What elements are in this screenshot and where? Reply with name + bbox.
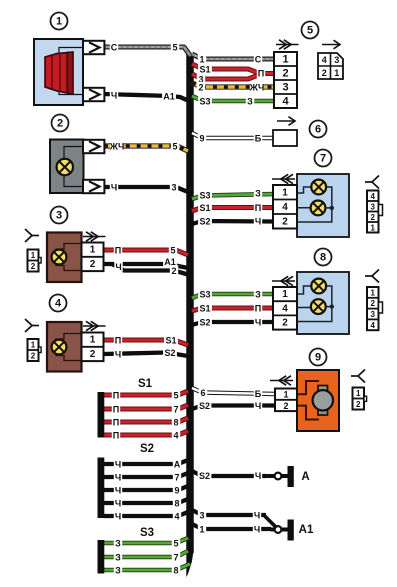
svg-text:1: 1 (283, 390, 288, 400)
svg-text:S2: S2 (199, 401, 210, 411)
svg-text:S3: S3 (199, 290, 210, 300)
svg-text:7: 7 (174, 473, 179, 483)
svg-text:9: 9 (199, 134, 204, 144)
svg-text:S2: S2 (199, 217, 210, 227)
svg-text:2: 2 (31, 352, 36, 361)
svg-text:1: 1 (371, 223, 376, 232)
svg-text:8: 8 (173, 566, 178, 576)
svg-text:8: 8 (320, 252, 326, 264)
svg-text:З: З (247, 97, 253, 107)
svg-text:S2: S2 (140, 443, 154, 455)
svg-text:7: 7 (173, 405, 178, 415)
svg-text:3: 3 (56, 210, 62, 222)
svg-text:4: 4 (282, 96, 289, 108)
svg-text:S3: S3 (199, 97, 210, 107)
svg-text:П: П (113, 418, 119, 428)
svg-text:2: 2 (371, 213, 376, 222)
svg-text:S3: S3 (199, 191, 210, 201)
svg-text:С: С (111, 43, 118, 53)
svg-text:П: П (255, 203, 261, 213)
svg-text:П: П (113, 405, 119, 415)
svg-text:З: З (115, 553, 121, 563)
svg-text:S2: S2 (199, 318, 210, 328)
svg-text:2: 2 (371, 299, 376, 308)
svg-text:Ч: Ч (255, 217, 261, 227)
svg-text:Ч: Ч (115, 473, 121, 483)
svg-text:Ч: Ч (255, 401, 261, 411)
svg-text:2: 2 (283, 401, 288, 411)
svg-text:5: 5 (173, 539, 178, 549)
svg-text:6: 6 (200, 388, 205, 398)
svg-text:3: 3 (334, 55, 339, 65)
svg-text:З: З (115, 539, 121, 549)
svg-text:Ч: Ч (115, 350, 121, 360)
svg-text:3: 3 (371, 202, 376, 211)
svg-text:2: 2 (31, 262, 36, 271)
svg-text:7: 7 (320, 153, 326, 165)
svg-text:П: П (115, 246, 121, 256)
svg-text:Ч: Ч (254, 511, 260, 521)
svg-text:1: 1 (90, 335, 96, 346)
svg-text:ЖЧ: ЖЧ (109, 142, 125, 152)
svg-text:S1: S1 (199, 65, 210, 75)
svg-text:2: 2 (171, 266, 176, 276)
svg-text:1: 1 (31, 341, 36, 350)
svg-text:2: 2 (57, 118, 63, 130)
svg-text:8: 8 (174, 499, 179, 509)
svg-text:6: 6 (315, 124, 321, 136)
svg-text:4: 4 (371, 321, 376, 330)
svg-text:1: 1 (282, 289, 288, 300)
svg-text:3: 3 (199, 511, 204, 521)
svg-text:5: 5 (307, 25, 313, 37)
svg-text:9: 9 (315, 352, 321, 364)
svg-text:S2: S2 (199, 471, 210, 481)
svg-text:Ч: Ч (115, 486, 121, 496)
svg-text:1: 1 (334, 68, 339, 78)
svg-text:2: 2 (90, 259, 96, 270)
svg-text:9: 9 (174, 486, 179, 496)
svg-text:2: 2 (356, 400, 361, 409)
svg-text:4: 4 (282, 202, 288, 213)
svg-text:1: 1 (56, 16, 62, 28)
svg-text:А1: А1 (163, 92, 175, 102)
svg-text:S1: S1 (199, 203, 210, 213)
svg-text:Ч: Ч (111, 183, 117, 193)
svg-text:П: П (115, 336, 121, 346)
svg-text:5: 5 (172, 142, 177, 152)
svg-text:4: 4 (173, 431, 178, 441)
svg-text:П: П (255, 304, 261, 314)
svg-text:Ч: Ч (254, 525, 260, 535)
svg-text:5: 5 (173, 391, 178, 401)
svg-text:З: З (115, 566, 121, 576)
svg-text:Б: Б (255, 389, 262, 399)
svg-text:1: 1 (90, 245, 96, 256)
svg-text:2: 2 (282, 68, 288, 80)
svg-text:1: 1 (199, 55, 204, 65)
svg-text:5: 5 (170, 246, 175, 256)
svg-text:Ч: Ч (255, 318, 261, 328)
svg-text:З: З (255, 290, 261, 300)
svg-text:3: 3 (371, 310, 376, 319)
svg-text:З: З (255, 189, 261, 199)
svg-text:П: П (113, 431, 119, 441)
svg-text:С: С (255, 55, 262, 65)
svg-text:Ч: Ч (115, 460, 121, 470)
svg-text:8: 8 (173, 418, 178, 428)
svg-text:3: 3 (282, 82, 288, 94)
svg-text:S3: S3 (140, 527, 154, 539)
svg-text:S1: S1 (199, 304, 210, 314)
svg-text:4: 4 (282, 303, 288, 314)
svg-text:Ч: Ч (115, 512, 121, 522)
svg-text:1: 1 (199, 525, 204, 535)
svg-text:А1: А1 (299, 524, 314, 536)
svg-text:1: 1 (371, 288, 376, 297)
svg-text:3: 3 (171, 183, 176, 193)
svg-text:2: 2 (322, 68, 327, 78)
svg-text:Б: Б (255, 134, 262, 144)
svg-text:1: 1 (282, 54, 288, 66)
svg-text:2: 2 (198, 83, 203, 93)
svg-text:Ч: Ч (111, 91, 117, 101)
svg-text:А: А (301, 471, 309, 483)
svg-text:5: 5 (172, 43, 177, 53)
svg-text:П: П (113, 391, 119, 401)
svg-text:1: 1 (282, 187, 288, 198)
svg-text:S1: S1 (165, 336, 176, 346)
svg-text:2: 2 (282, 216, 288, 227)
svg-text:4: 4 (174, 512, 179, 522)
svg-text:1: 1 (356, 389, 361, 398)
svg-text:Ч: Ч (255, 471, 261, 481)
svg-text:2: 2 (90, 349, 96, 360)
svg-text:Ч: Ч (115, 262, 121, 272)
svg-text:2: 2 (282, 318, 288, 329)
svg-text:1: 1 (31, 251, 36, 260)
svg-text:Ч: Ч (115, 499, 121, 509)
svg-text:7: 7 (173, 553, 178, 563)
svg-text:4: 4 (322, 55, 327, 65)
svg-text:S1: S1 (138, 378, 153, 390)
svg-text:4: 4 (55, 298, 62, 310)
svg-text:ЖЧ: ЖЧ (249, 83, 265, 93)
svg-text:4: 4 (371, 192, 376, 201)
svg-text:П: П (258, 69, 264, 79)
svg-text:А: А (174, 460, 181, 470)
svg-text:S2: S2 (164, 348, 175, 358)
